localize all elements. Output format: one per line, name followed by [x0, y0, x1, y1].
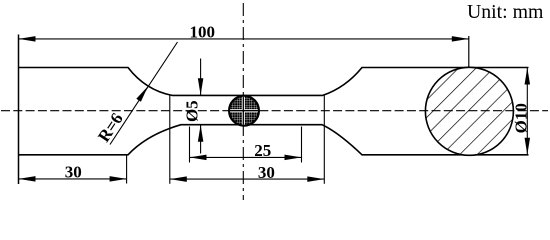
svg-text:Ø5: Ø5	[183, 100, 202, 122]
specimen right edge / 100-dim extension	[468, 36, 470, 155]
svg-text:100: 100	[190, 23, 216, 42]
big hatched circle (Ø10 cross-section)	[425, 67, 513, 155]
30 left dimension	[19, 178, 127, 180]
svg-text:Ø10: Ø10	[512, 103, 531, 133]
svg-text:30: 30	[65, 162, 82, 181]
30 middle dimension	[170, 178, 324, 180]
specimen outline top	[19, 68, 529, 96]
100 dimension	[19, 38, 469, 40]
25 dimension	[190, 156, 302, 158]
specimen outline bottom	[19, 125, 529, 155]
Ø10 dimension	[526, 68, 528, 155]
small crosshatched circle (gauge mark)	[228, 95, 260, 126]
svg-text:Unit: mm: Unit: mm	[467, 1, 544, 23]
vertical centerline	[242, 3, 244, 200]
Ø5 dimension	[200, 59, 202, 96]
R=6 leader	[110, 42, 178, 145]
svg-text:30: 30	[258, 163, 275, 182]
specimen left edge + extension lines	[18, 35, 20, 185]
svg-text:25: 25	[254, 141, 271, 160]
horizontal centerline	[1, 110, 548, 112]
